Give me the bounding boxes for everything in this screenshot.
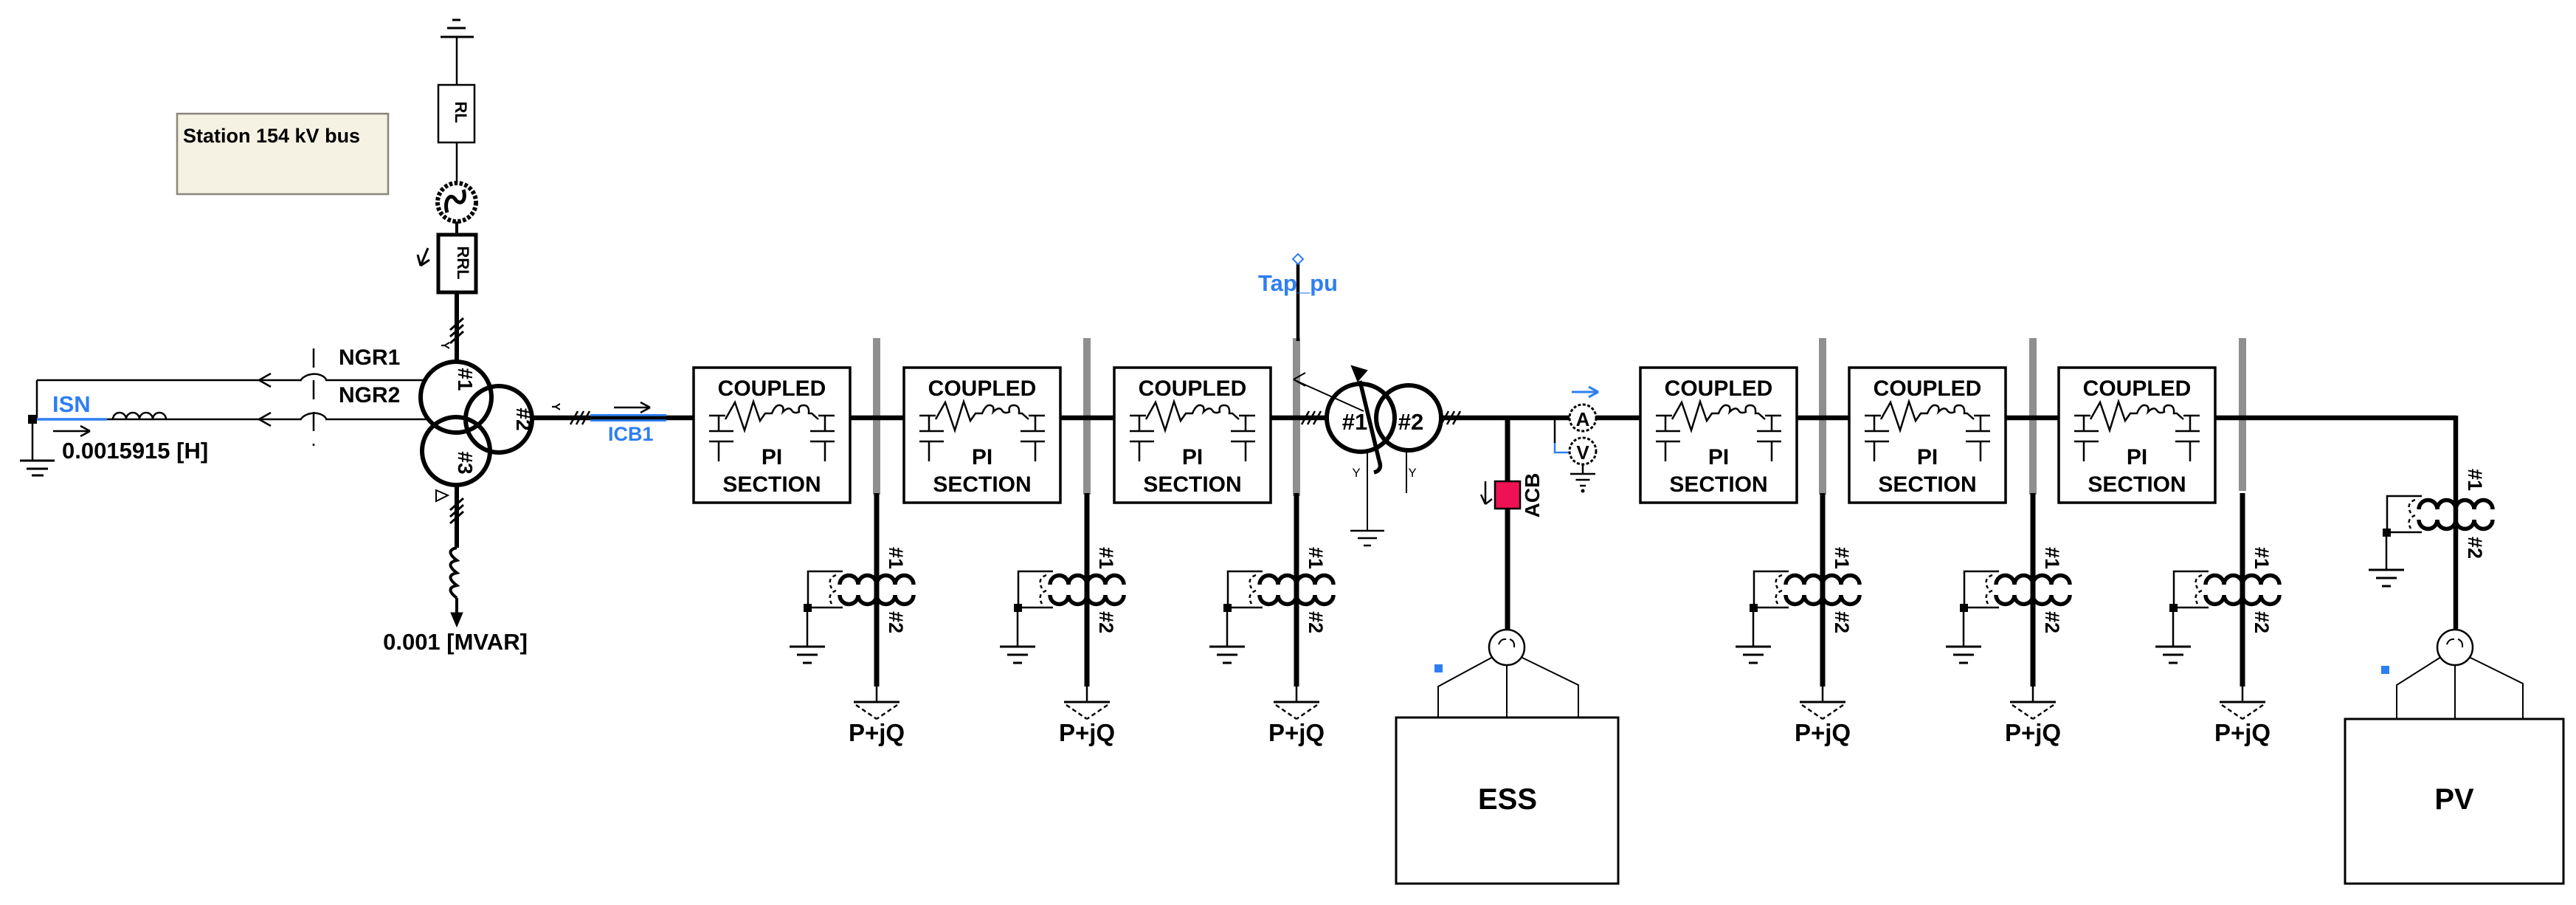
load arrow P+jQ xyxy=(1064,701,1110,703)
bus bar B1 xyxy=(873,338,880,495)
transformer T1 winding #3 xyxy=(422,417,490,485)
magnetizing branch (dashed) xyxy=(1986,575,1992,604)
magnetizing branch (dashed) xyxy=(830,575,836,604)
coupled PI section block 6 xyxy=(2059,368,2215,503)
svg-text:A: A xyxy=(1576,408,1590,430)
svg-text:#2: #2 xyxy=(512,407,535,430)
svg-text:Y: Y xyxy=(438,342,451,350)
node ISN xyxy=(28,415,37,424)
ground xyxy=(2155,646,2191,648)
transformer T1 windings (white fill) xyxy=(421,362,491,433)
transformer neutral loop xyxy=(1754,571,1789,608)
wire to load xyxy=(1822,687,1824,702)
transformer neutral loop xyxy=(1228,571,1263,608)
bus bar B2 xyxy=(1083,338,1091,495)
node xyxy=(1223,604,1232,612)
svg-text:RRL: RRL xyxy=(454,246,472,279)
svg-text:SECTION: SECTION xyxy=(1669,472,1767,497)
wire NGR1 xyxy=(37,379,301,382)
wire to ground xyxy=(2172,612,2175,647)
svg-text:COUPLED: COUPLED xyxy=(928,376,1037,401)
svg-text:P+jQ: P+jQ xyxy=(849,719,905,746)
arrow (RRL measurement) xyxy=(421,248,428,266)
svg-text:ACB: ACB xyxy=(1521,473,1544,518)
bus bar B4 xyxy=(1819,338,1826,495)
wire (left riser) xyxy=(36,380,38,418)
winding config delta xyxy=(436,490,448,501)
wire to ground xyxy=(32,424,34,461)
load transformer 2 winding #2 xyxy=(1050,595,1124,604)
svg-text:PI: PI xyxy=(1708,445,1729,469)
wire to ground xyxy=(1226,612,1229,647)
arrow (ICB1 flow) xyxy=(614,407,650,409)
load transformer 4 winding #1 xyxy=(1786,575,1860,585)
load arrow P+jQ xyxy=(2010,701,2056,703)
magnetizing branch (dashed) xyxy=(1776,575,1782,604)
arrow (ISN current) xyxy=(53,430,90,433)
load arrow P+jQ xyxy=(854,701,899,703)
wire to ground xyxy=(807,612,809,647)
svg-text:SECTION: SECTION xyxy=(2088,472,2186,497)
ground xyxy=(1736,646,1771,648)
transformer neutral loop xyxy=(1964,571,1999,608)
svg-text:PI: PI xyxy=(1917,445,1938,469)
tap transformer windings (white fill) xyxy=(1327,384,1395,452)
node xyxy=(1960,604,1968,612)
node xyxy=(2383,529,2391,537)
svg-text:#1: #1 xyxy=(1095,547,1117,569)
resistor RL xyxy=(438,85,474,142)
svg-text:PI: PI xyxy=(1182,445,1203,469)
breaker NGR2 xyxy=(300,413,326,420)
svg-text:PI: PI xyxy=(2127,445,2147,469)
load transformer 3 winding #1 xyxy=(1260,575,1333,585)
converter node (PV) xyxy=(2437,630,2473,665)
transformer neutral loop xyxy=(2174,571,2209,608)
wire xyxy=(455,598,458,614)
wire to load xyxy=(876,687,878,702)
coupled PI section block 4 xyxy=(1640,368,1797,503)
svg-text:COUPLED: COUPLED xyxy=(718,376,826,401)
svg-text:PI: PI xyxy=(972,445,992,469)
tap changer arrow xyxy=(1360,381,1380,472)
load transformer 3 winding #2 xyxy=(1260,595,1333,604)
neutral wire xyxy=(1367,450,1368,530)
load arrow P+jQ xyxy=(1800,701,1845,703)
ground xyxy=(790,646,825,648)
wire (right corner down to PV) xyxy=(2454,416,2459,629)
svg-text:#1: #1 xyxy=(1342,409,1367,435)
converter node (ESS) xyxy=(1489,630,1524,665)
tap transformer winding #2 xyxy=(1376,385,1441,450)
ground xyxy=(1209,646,1245,648)
svg-text:0.001 [MVAR]: 0.001 [MVAR] xyxy=(383,629,528,655)
breaker NGR1 xyxy=(300,374,326,381)
svg-text:SECTION: SECTION xyxy=(933,472,1031,497)
wire with phase marks xyxy=(455,292,459,363)
svg-text:P+jQ: P+jQ xyxy=(1268,719,1325,746)
feeder wire 3 xyxy=(1294,493,1299,687)
reactor 0.001 MVAR coil xyxy=(451,548,457,598)
wire NGR2 xyxy=(107,419,301,421)
Tap_pu signal wire xyxy=(1296,264,1300,341)
tap signal wire xyxy=(1296,381,1364,411)
breaker ACB xyxy=(1495,481,1520,509)
transformer neutral loop xyxy=(808,571,843,608)
svg-text:NGR1: NGR1 xyxy=(339,345,400,370)
feeder wire 2 xyxy=(1085,493,1090,687)
load transformer 4 winding #2 xyxy=(1786,595,1860,604)
PV transformer winding #1 xyxy=(2419,500,2493,509)
svg-text:#1: #1 xyxy=(2251,547,2273,569)
ground xyxy=(1946,646,1981,648)
source U1 (AC source) xyxy=(438,183,476,221)
svg-text:Tap_pu: Tap_pu xyxy=(1258,270,1338,296)
magnetizing branch (dashed) xyxy=(2409,500,2415,529)
neutral stub xyxy=(1406,450,1407,493)
svg-text:P+jQ: P+jQ xyxy=(2005,719,2061,746)
resistor RRL xyxy=(455,221,458,235)
svg-text:COUPLED: COUPLED xyxy=(2083,376,2192,401)
phase marks xyxy=(1441,411,1448,424)
svg-text:V: V xyxy=(1576,441,1589,464)
wire to load xyxy=(2242,687,2244,702)
svg-text:Y: Y xyxy=(1408,466,1416,480)
node xyxy=(804,604,812,612)
svg-text:0.0015915 [H]: 0.0015915 [H] xyxy=(62,438,208,464)
phase marks xyxy=(1302,411,1309,424)
load arrow P+jQ xyxy=(2220,701,2265,703)
bus bar B5 xyxy=(2029,338,2037,495)
voltmeter V xyxy=(1570,438,1596,464)
transformer neutral loop xyxy=(1018,571,1053,608)
svg-text:COUPLED: COUPLED xyxy=(1139,376,1247,401)
svg-text:#1: #1 xyxy=(1305,547,1327,569)
feeder wire 4 xyxy=(1820,493,1826,687)
load transformer 5 winding #2 xyxy=(1996,595,2070,604)
tap transformer winding #1 xyxy=(1327,384,1395,452)
converter fan wires xyxy=(2397,657,2523,719)
coupled PI section block 5 xyxy=(1849,368,2006,503)
Tap_pu terminal xyxy=(1293,254,1303,264)
svg-text:NGR2: NGR2 xyxy=(339,383,400,407)
wire ICB1 (blue highlight) xyxy=(590,414,666,421)
svg-text:P+jQ: P+jQ xyxy=(2214,719,2271,746)
load transformer 5 winding #1 xyxy=(1996,575,2070,585)
svg-text:P+jQ: P+jQ xyxy=(1059,719,1115,746)
load transformer 6 winding #2 xyxy=(2206,595,2279,604)
feeder wire 5 xyxy=(2031,493,2036,687)
svg-text:ICB1: ICB1 xyxy=(608,423,654,445)
wire xyxy=(456,142,458,183)
wire ISN (blue) xyxy=(37,418,107,421)
ammeter A xyxy=(1570,405,1596,431)
wire to ground xyxy=(2386,537,2388,570)
arrow on NGR2 wire xyxy=(259,413,271,426)
svg-text:Y: Y xyxy=(1352,466,1360,480)
breaker arrow xyxy=(1485,481,1487,504)
ground xyxy=(1350,530,1384,532)
svg-text:Station 154 kV bus: Station 154 kV bus xyxy=(183,125,360,147)
svg-text:PV: PV xyxy=(2434,783,2474,816)
wire with phase marks xyxy=(455,484,459,548)
svg-text:#1: #1 xyxy=(454,368,477,390)
wire to ground xyxy=(1017,612,1019,647)
svg-text:#2: #2 xyxy=(885,611,907,633)
svg-text:#2: #2 xyxy=(1305,611,1327,633)
svg-text:P+jQ: P+jQ xyxy=(1795,719,1851,746)
PV transformer winding #2 xyxy=(2419,520,2493,529)
svg-text:RL: RL xyxy=(452,101,470,123)
bus bar B6 xyxy=(2239,338,2246,491)
voltmeter wire xyxy=(1554,420,1556,443)
wire to load xyxy=(1296,687,1298,702)
ground xyxy=(2369,569,2404,571)
node xyxy=(2169,604,2178,612)
load transformer 2 winding #1 xyxy=(1050,575,1124,585)
load arrow P+jQ xyxy=(1274,701,1319,703)
svg-text:#2: #2 xyxy=(1398,409,1423,435)
svg-text:#1: #1 xyxy=(1831,547,1853,569)
svg-text:ESS: ESS xyxy=(1478,783,1537,816)
dashed separator line xyxy=(313,348,315,446)
svg-text:COUPLED: COUPLED xyxy=(1665,376,1773,401)
svg-text:#3: #3 xyxy=(454,451,477,474)
svg-text:#2: #2 xyxy=(2464,537,2486,559)
phase marks (T1 secondary) xyxy=(570,411,578,424)
ground xyxy=(1000,646,1035,648)
coupled PI section block 1 xyxy=(694,368,850,503)
node xyxy=(1750,604,1758,612)
arrow terminal xyxy=(451,613,463,627)
svg-text:#1: #1 xyxy=(885,547,907,569)
svg-text:SECTION: SECTION xyxy=(1878,472,1976,497)
svg-text:ISN: ISN xyxy=(52,391,91,417)
svg-text:COUPLED: COUPLED xyxy=(1874,376,1982,401)
svg-text:#1: #1 xyxy=(2041,547,2063,569)
signal square xyxy=(1434,664,1443,672)
svg-text:Y: Y xyxy=(549,403,562,411)
PV block xyxy=(2345,719,2563,884)
svg-text:#1: #1 xyxy=(2464,469,2486,491)
ESS feeder wire xyxy=(1505,418,1510,630)
inductor 0.0015915 H xyxy=(113,413,166,419)
magnetizing branch (dashed) xyxy=(1250,575,1256,604)
svg-text:#2: #2 xyxy=(1095,611,1117,633)
ground (source top) xyxy=(456,37,458,85)
bus bar B3 xyxy=(1293,338,1300,496)
feeder wire 1 xyxy=(874,493,880,687)
svg-text:#2: #2 xyxy=(1831,611,1853,633)
signal square xyxy=(2381,666,2389,674)
ground (ISN) xyxy=(20,460,55,462)
arrow on NGR1 wire xyxy=(259,374,271,387)
svg-text:SECTION: SECTION xyxy=(1143,472,1241,497)
transformer T1 winding #1 xyxy=(421,362,491,433)
svg-text:#2: #2 xyxy=(2251,611,2273,633)
feeder wire 6 xyxy=(2240,493,2245,687)
svg-text:#2: #2 xyxy=(2041,611,2063,633)
converter fan wires xyxy=(1438,657,1578,718)
wire to ground xyxy=(1753,612,1755,647)
wire to load xyxy=(2032,687,2034,702)
ground (voltmeter) xyxy=(1582,464,1584,474)
label box: Station 154 kV bus xyxy=(177,114,388,194)
coupled PI section block 3 xyxy=(1114,368,1271,503)
arrow (flow, blue) xyxy=(1572,391,1598,393)
load transformer 1 winding #1 xyxy=(840,575,914,585)
magnetizing branch (dashed) xyxy=(1040,575,1046,604)
wire to load xyxy=(1086,687,1088,702)
svg-text:SECTION: SECTION xyxy=(722,472,821,497)
node xyxy=(1014,604,1022,612)
transformer neutral loop xyxy=(2387,496,2422,532)
load transformer 6 winding #1 xyxy=(2206,575,2279,585)
main feeder wire xyxy=(532,416,2456,421)
coupled PI section block 2 xyxy=(904,368,1060,503)
svg-text:PI: PI xyxy=(762,445,782,469)
magnetizing branch (dashed) xyxy=(2196,575,2202,604)
ESS block xyxy=(1396,718,1618,884)
transformer T1 winding #2 xyxy=(466,386,532,452)
load transformer 1 winding #2 xyxy=(840,595,914,604)
wire to ground xyxy=(1963,612,1965,647)
